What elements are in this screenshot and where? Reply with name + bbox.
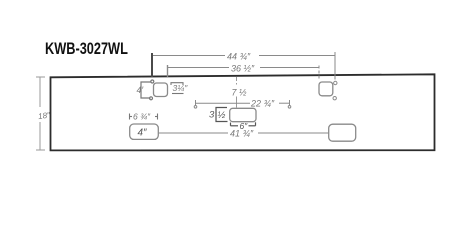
svg-text:6 ¾″: 6 ¾″ — [133, 112, 151, 122]
svg-text:22 ¾″: 22 ¾″ — [250, 99, 275, 109]
svg-text:4″: 4″ — [138, 128, 148, 139]
svg-text:½: ½ — [218, 110, 226, 121]
svg-text:36 ½″: 36 ½″ — [231, 64, 255, 74]
svg-text:18″: 18″ — [38, 110, 52, 121]
svg-text:41 ¾″: 41 ¾″ — [230, 129, 254, 139]
svg-text:7 ½: 7 ½ — [232, 88, 248, 98]
svg-text:4′: 4′ — [137, 85, 144, 95]
svg-text:3: 3 — [209, 110, 215, 121]
svg-text:44 ¾″: 44 ¾″ — [227, 52, 251, 62]
svg-text:3¼″: 3¼″ — [173, 83, 189, 93]
